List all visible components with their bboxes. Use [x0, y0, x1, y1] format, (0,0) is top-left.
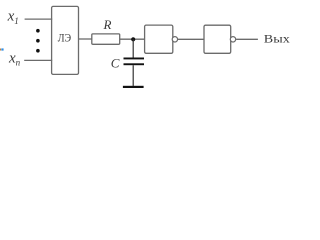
- inverter U3 box: [204, 25, 231, 53]
- wire node A down to capacitor: [132, 39, 134, 57]
- ground bar: [123, 86, 144, 88]
- wire x1 input: [25, 18, 53, 20]
- logic element U1 box: [52, 6, 79, 74]
- resistor R: [92, 34, 120, 44]
- svg-text:Вых: Вых: [264, 31, 290, 45]
- wire capacitor to ground: [132, 65, 134, 86]
- node A junction dot: [131, 37, 135, 41]
- wire U3 output: [236, 38, 258, 40]
- inverter U2 box: [145, 25, 173, 53]
- wire U1 output to R: [79, 38, 93, 40]
- edge artifact mark: [0, 49, 1, 51]
- ellipsis dots: [36, 29, 40, 53]
- wire R to node A: [120, 38, 145, 40]
- svg-text:C: C: [111, 55, 120, 70]
- inverter U2 output bubble: [172, 37, 177, 42]
- capacitor C plate 2: [124, 63, 145, 65]
- inverter U3 output bubble: [230, 37, 235, 42]
- wire xn input: [24, 59, 52, 61]
- svg-text:ЛЭ: ЛЭ: [58, 30, 71, 44]
- wire U2 to U3: [178, 38, 204, 40]
- capacitor C plate 1: [124, 58, 145, 60]
- svg-text:R: R: [103, 17, 112, 32]
